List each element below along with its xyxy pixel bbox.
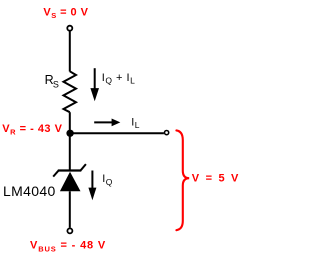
terminal VBUS xyxy=(67,228,72,233)
junction node VR xyxy=(66,130,73,137)
terminal VS xyxy=(67,26,72,31)
resistor RS xyxy=(64,71,77,112)
zener right tail xyxy=(81,164,86,170)
wire from resistor to node VR xyxy=(69,112,71,133)
zener diode anode triangle xyxy=(60,172,81,192)
current arrow IQ+IL xyxy=(94,68,96,89)
right terminal xyxy=(165,131,169,135)
svg-text:LM4040: LM4040 xyxy=(3,183,56,199)
wire from VS terminal to resistor xyxy=(69,31,71,71)
wire node VR to right terminal xyxy=(70,132,164,134)
svg-text:V = 5 V: V = 5 V xyxy=(192,172,239,184)
zener diode cathode bar xyxy=(58,169,82,171)
wire node VR to zener xyxy=(69,133,71,171)
current arrow IQ xyxy=(91,171,93,189)
svg-text:VS = 0 V: VS = 0 V xyxy=(43,6,88,20)
brace V xyxy=(176,130,189,230)
current arrow IL xyxy=(94,121,112,123)
zener left tail xyxy=(53,171,58,177)
wire zener to VBUS terminal xyxy=(69,191,71,227)
